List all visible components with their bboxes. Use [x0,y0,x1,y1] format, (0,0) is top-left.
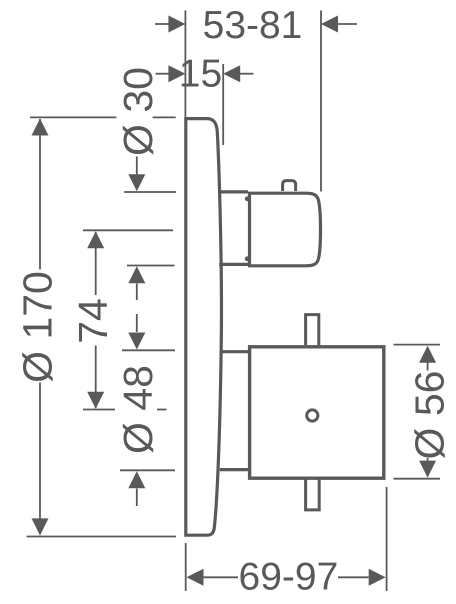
svg-text:74: 74 [70,298,116,344]
knob neck bottom line [219,263,248,266]
thermostat knob body [250,193,321,266]
arrow d48 down [128,333,145,350]
dim 53-81 left extension line [184,11,186,118]
dim d170 dimension line [39,119,41,534]
svg-text:Ø 48: Ø 48 [115,365,161,454]
dim 15 left leader [156,73,170,75]
dim d30 lower leader [136,284,138,301]
svg-text:15: 15 [179,52,222,95]
dim 74 top extension line [83,229,173,231]
arrow d30 down [128,174,145,191]
dim 69-97 left extension line [185,543,187,591]
square handle top tab [306,315,319,346]
svg-text:Ø 56: Ø 56 [407,371,453,460]
dim 53-81 left leader [155,23,169,25]
handle center screw [307,410,318,421]
svg-text:53-81: 53-81 [203,4,303,47]
dim 69-97 right extension line [386,487,388,591]
arrow 74 down [87,392,104,409]
dim d48 upper leader [136,314,138,332]
stem top line [221,350,249,353]
arrow d170 down [32,518,49,535]
square volume handle [250,347,384,478]
arrow d170 up [32,119,49,136]
svg-text:69-97: 69-97 [239,555,339,598]
dim d48 top extension line [122,349,175,351]
stem bottom line [220,468,248,471]
dim 53-81 right extension line [320,11,322,192]
dim d56 dimension line [427,347,429,477]
arrow d48 up [128,471,145,488]
dim 74 bottom extension line [83,409,167,411]
arrow d56 up [419,346,436,363]
dim d30 bottom extension line [127,265,175,267]
svg-text:Ø 170: Ø 170 [15,271,61,383]
arrow d56 down [419,461,436,478]
dim d48 bottom extension line [120,469,175,471]
arrow 53-81 left [168,16,185,33]
dim d30 upper leader [136,157,138,175]
escutcheon plate outline [186,119,222,536]
dim d170 bottom extension line [27,536,177,538]
dim d48 lower leader [136,489,138,507]
arrow 15 right [223,65,240,82]
knob clip nub upper [245,196,250,201]
arrow 15 left [168,65,185,82]
arrow 74 up [87,231,104,248]
dim 15 right extension line [222,64,224,145]
arrow 69-97 left [187,569,204,586]
dim d56 bottom extension line [394,478,441,480]
knob top tab [283,181,296,191]
knob clip nub lower [245,256,250,261]
arrow d30 up [128,266,145,283]
dim 74 dimension line [95,232,97,408]
dim 15 right leader [240,73,254,75]
knob neck top line [220,190,248,193]
square handle bottom tab [306,480,320,510]
dim d170 top extension line [30,116,176,118]
svg-text:Ø 30: Ø 30 [115,67,161,156]
arrow 53-81 right [321,16,338,33]
dim 53-81 right leader [338,23,358,25]
arrow 69-97 right [369,569,386,586]
dim 69-97 dimension line [204,576,369,578]
dim d56 top extension line [394,344,441,346]
dim d30 top extension line [124,191,176,193]
